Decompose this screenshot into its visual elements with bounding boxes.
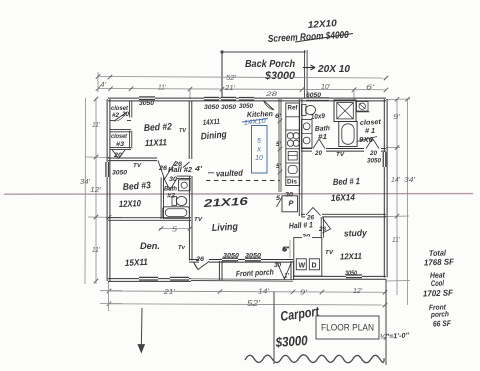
svg-text:11': 11': [158, 85, 167, 92]
svg-text:1702 SF: 1702 SF: [423, 287, 454, 298]
svg-text:TV: TV: [133, 163, 142, 169]
svg-text:porch: porch: [430, 309, 450, 319]
svg-text:21X16: 21X16: [202, 196, 249, 210]
svg-text:6050: 6050: [306, 93, 322, 99]
svg-text:12X10: 12X10: [119, 198, 141, 209]
svg-text:3050: 3050: [221, 104, 237, 111]
svg-text:21': 21': [224, 85, 236, 92]
svg-text:closet: closet: [360, 119, 382, 127]
svg-text:9': 9': [300, 288, 308, 297]
svg-text:20: 20: [314, 151, 323, 157]
svg-text:5': 5': [276, 141, 281, 148]
svg-text:#2: #2: [167, 193, 175, 200]
svg-text:3050: 3050: [204, 104, 220, 111]
svg-text:$3000: $3000: [274, 333, 308, 350]
svg-text:20X 10: 20X 10: [317, 63, 350, 75]
svg-text:14X11: 14X11: [203, 117, 221, 127]
svg-text:20: 20: [369, 151, 378, 157]
svg-text:12X10: 12X10: [307, 18, 337, 31]
svg-text:28: 28: [264, 91, 277, 98]
svg-text:12X11: 12X11: [340, 251, 363, 262]
svg-text:14': 14': [391, 177, 401, 184]
svg-text:11X11: 11X11: [145, 137, 167, 148]
svg-text:9': 9': [393, 114, 401, 121]
svg-text:vaulted: vaulted: [216, 168, 244, 179]
svg-text:14': 14': [258, 287, 270, 296]
svg-text:TV: TV: [179, 128, 187, 134]
svg-text:Den.: Den.: [140, 241, 160, 251]
svg-text:30: 30: [169, 177, 178, 183]
svg-text:3050: 3050: [223, 253, 240, 260]
svg-text:12': 12': [353, 286, 363, 295]
svg-text:6': 6': [275, 113, 282, 120]
svg-text:3050: 3050: [245, 253, 262, 260]
svg-text:6': 6': [283, 247, 289, 254]
svg-text:26: 26: [306, 216, 315, 222]
svg-text:52': 52': [226, 73, 237, 82]
svg-text:1': 1': [284, 273, 289, 280]
svg-text:Ref: Ref: [288, 106, 299, 112]
svg-text:TV: TV: [325, 250, 334, 256]
svg-text:D: D: [312, 263, 317, 270]
svg-text:4': 4': [194, 164, 202, 173]
svg-text:#2: #2: [112, 112, 120, 119]
svg-text:Hall # 1: Hall # 1: [289, 220, 314, 230]
svg-text:TV: TV: [336, 152, 345, 158]
svg-text:4': 4': [100, 82, 107, 89]
svg-text:3050: 3050: [112, 170, 128, 177]
svg-text:TV: TV: [194, 217, 203, 223]
svg-text:#1: #1: [318, 134, 327, 141]
svg-text:Hall #2: Hall #2: [168, 165, 193, 174]
svg-text:Bed #3: Bed #3: [122, 180, 151, 193]
svg-text:3050: 3050: [139, 100, 155, 107]
svg-text:5: 5: [172, 227, 177, 234]
svg-text:34': 34': [404, 175, 416, 184]
svg-text:34': 34': [80, 177, 91, 186]
svg-text:11': 11': [392, 237, 401, 244]
svg-text:11': 11': [92, 122, 101, 129]
svg-text:Bath: Bath: [164, 186, 177, 193]
svg-text:66 SF: 66 SF: [433, 319, 452, 329]
svg-text:15X11: 15X11: [125, 257, 148, 268]
svg-text:Dining: Dining: [200, 129, 227, 142]
svg-text:12': 12': [90, 185, 102, 194]
svg-text:11': 11': [92, 247, 101, 254]
svg-text:#3: #3: [116, 141, 125, 148]
svg-text:1768 SF: 1768 SF: [424, 256, 455, 267]
svg-text:Bath: Bath: [315, 125, 330, 133]
svg-text:10: 10: [255, 155, 263, 162]
svg-text:Living: Living: [212, 222, 239, 234]
svg-text:26: 26: [318, 227, 327, 233]
svg-text:Tv: Tv: [178, 245, 186, 251]
svg-text:6': 6': [366, 85, 375, 92]
svg-text:Back Porch: Back Porch: [245, 58, 295, 70]
svg-text:10x9: 10x9: [311, 113, 326, 121]
svg-text:3050: 3050: [345, 271, 358, 277]
svg-text:# 1: # 1: [365, 128, 375, 135]
svg-text:10': 10': [321, 84, 331, 91]
svg-text:20: 20: [121, 112, 130, 118]
svg-text:$3000: $3000: [264, 70, 296, 82]
svg-text:X: X: [256, 147, 262, 154]
svg-text:Bed # 1: Bed # 1: [333, 176, 360, 187]
svg-text:26: 26: [195, 257, 205, 263]
svg-text:closet: closet: [111, 105, 129, 112]
svg-text:closet: closet: [111, 133, 128, 140]
svg-text:study: study: [344, 228, 368, 239]
svg-text:W: W: [299, 263, 306, 270]
svg-text:30: 30: [285, 193, 294, 199]
svg-text:26: 26: [158, 166, 168, 172]
svg-text:5': 5': [276, 163, 281, 170]
svg-text:Dis: Dis: [287, 180, 298, 186]
svg-text:P: P: [289, 201, 294, 208]
svg-text:21': 21': [163, 287, 176, 296]
svg-text:52': 52': [247, 299, 261, 308]
svg-text:FLOOR PLAN: FLOOR PLAN: [321, 323, 374, 333]
svg-text:16X14: 16X14: [331, 192, 355, 203]
svg-text:Cool: Cool: [431, 279, 445, 288]
svg-text:5: 5: [257, 138, 261, 145]
svg-text:3050: 3050: [367, 159, 382, 165]
svg-text:Bed #2: Bed #2: [144, 122, 173, 134]
